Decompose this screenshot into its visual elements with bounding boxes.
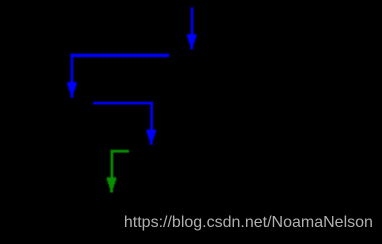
arrow A2 head — [67, 82, 76, 98]
wire W1 horizontal (blue, row 1) — [67, 54, 169, 98]
wire W3 horizontal (green) — [107, 150, 129, 193]
arrow A4 shaft (green vertical drop) — [111, 150, 114, 179]
watermark text — [124, 215, 373, 231]
arrow A3 head — [147, 130, 156, 145]
wire W2 horizontal (blue, row 2) — [93, 102, 156, 145]
arrow A3 shaft (vertical drop at right end of W2) — [150, 102, 153, 132]
arrow A4 head — [107, 177, 116, 192]
arrow A2 shaft (vertical drop at left end of W1) — [71, 54, 74, 84]
arrow A1 head — [187, 34, 196, 49]
arrow A1 shaft (vertical blue line top center) — [187, 7, 196, 49]
